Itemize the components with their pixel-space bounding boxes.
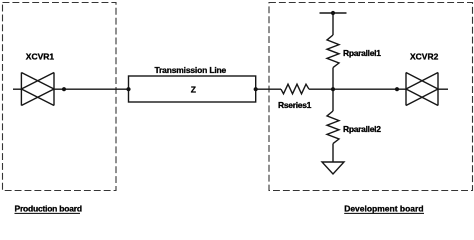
svg-text:Production board: Production board (15, 204, 82, 214)
svg-text:Z: Z (191, 85, 196, 95)
svg-text:Development board: Development board (344, 204, 423, 214)
svg-text:Transmission Line: Transmission Line (155, 65, 227, 75)
svg-text:Rparallel1: Rparallel1 (343, 48, 381, 58)
svg-text:Rparallel2: Rparallel2 (343, 124, 381, 134)
svg-text:XCVR2: XCVR2 (410, 51, 439, 61)
svg-text:XCVR1: XCVR1 (26, 51, 55, 61)
svg-text:Rseries1: Rseries1 (278, 100, 312, 110)
